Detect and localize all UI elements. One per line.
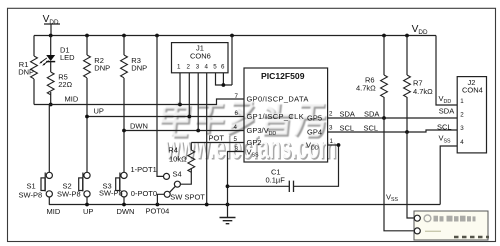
svg-text:UP: UP: [83, 207, 93, 216]
svg-text:SW-P8: SW-P8: [99, 189, 123, 198]
node SCL-R7: [405, 130, 409, 134]
svg-text:POT: POT: [209, 133, 225, 142]
svg-text:1: 1: [177, 63, 181, 70]
node J1p1-MID: [178, 103, 182, 107]
node rail-J1p4: [205, 203, 209, 207]
svg-text:SCL: SCL: [437, 123, 452, 132]
node rail-R3: [122, 34, 126, 38]
svg-text:MID: MID: [65, 94, 79, 103]
svg-text:POT04: POT04: [146, 207, 170, 216]
node pin1-C1: [337, 143, 341, 147]
svg-text:S4: S4: [173, 170, 182, 179]
svg-text:DWN: DWN: [117, 207, 135, 216]
svg-text:SW SPOT: SW SPOT: [170, 193, 205, 202]
resistor R7: [404, 36, 434, 133]
resistor R2: [84, 36, 111, 173]
node rail-S4: [155, 34, 159, 38]
svg-text:GP2: GP2: [247, 138, 262, 147]
resistor R1: [18, 36, 37, 105]
svg-text:1: 1: [460, 98, 464, 105]
svg-text:0-POT0: 0-POT0: [131, 189, 157, 198]
wire ground rail: [49, 204, 440, 206]
header J1 CON6: [172, 43, 229, 73]
wire SCL drop to module: [407, 132, 414, 218]
svg-text:6: 6: [235, 110, 239, 117]
node rail-S2: [85, 203, 89, 207]
capacitor C1: [228, 145, 339, 192]
svg-text:R4: R4: [168, 145, 178, 154]
svg-text:4.7kΩ: 4.7kΩ: [356, 84, 376, 93]
svg-text:SDA: SDA: [340, 110, 355, 119]
node rail-R2: [85, 34, 89, 38]
svg-text:10kΩ: 10kΩ: [169, 154, 187, 163]
header J2 CON4: [457, 77, 486, 153]
svg-text:3: 3: [460, 125, 464, 132]
svg-text:5: 5: [213, 63, 217, 70]
svg-text:DWN: DWN: [130, 121, 148, 130]
wire J1 pin4: [206, 73, 208, 205]
svg-text:SCL: SCL: [340, 123, 355, 132]
node VSS-C1: [226, 184, 230, 188]
node J1p2-UP: [187, 115, 191, 119]
pushbutton S2: [57, 172, 93, 216]
svg-text:2: 2: [187, 63, 191, 70]
LED D1: [39, 36, 75, 73]
svg-text:4: 4: [205, 63, 209, 70]
svg-text:MID: MID: [47, 207, 61, 216]
svg-text:0.1µF: 0.1µF: [266, 176, 286, 185]
watermark hanzi 电子发烧友: [161, 101, 328, 137]
svg-text:1: 1: [330, 138, 334, 145]
svg-text:UP: UP: [94, 106, 104, 115]
node rail-D1: [49, 34, 53, 38]
resistor R4: [168, 143, 194, 173]
svg-text:4.7kΩ: 4.7kΩ: [413, 87, 433, 96]
wire J1 pin1: [179, 73, 181, 105]
node SDA-R6: [382, 116, 386, 120]
wire SDA row: [328, 117, 458, 119]
node rail-gnd: [226, 203, 230, 207]
resistor R5: [47, 72, 72, 105]
svg-text:22Ω: 22Ω: [58, 80, 72, 89]
wire VDD top rail: [34, 35, 436, 37]
pushbutton S3: [99, 172, 134, 216]
wire VDD to J2 pin1: [436, 36, 457, 106]
svg-text:LED: LED: [60, 53, 75, 62]
wire J1 pin2: [188, 73, 190, 117]
VDD supply symbol top-right: [412, 24, 428, 36]
ground: [220, 218, 236, 224]
svg-text:2: 2: [329, 111, 333, 118]
wire SCL row: [328, 130, 458, 132]
svg-text:SW-P8: SW-P8: [19, 191, 43, 200]
svg-text:DNP: DNP: [18, 68, 34, 77]
node rail-R7: [405, 34, 409, 38]
wire UP row: [87, 116, 244, 118]
svg-text:4: 4: [234, 124, 238, 131]
wire DWN row: [124, 130, 244, 132]
resistor R3: [121, 36, 148, 173]
IC U1 PIC12F509: [244, 68, 328, 162]
svg-text:2: 2: [460, 112, 464, 119]
svg-text:SDA: SDA: [364, 110, 379, 119]
VDD supply symbol top-left: [43, 14, 60, 35]
svg-text:5: 5: [234, 136, 238, 143]
svg-text:3: 3: [196, 63, 200, 70]
svg-text:GP5: GP5: [307, 114, 322, 123]
node DWN-R3: [122, 129, 126, 133]
node rail-S4throw: [156, 203, 160, 207]
svg-text:6: 6: [221, 63, 225, 70]
svg-text:GP0/ISCP_DATA: GP0/ISCP_DATA: [247, 95, 309, 104]
wire VDD pin1: [328, 144, 339, 146]
svg-text:7: 7: [235, 93, 239, 100]
svg-text:DNP: DNP: [131, 63, 147, 72]
wire J1 pin5-6 tie to VDD: [216, 36, 233, 86]
svg-text:SCL: SCL: [364, 123, 379, 132]
wire VSS pin to ground: [228, 152, 245, 218]
resistor R6: [356, 36, 387, 119]
svg-text:S1: S1: [27, 182, 36, 191]
svg-text:SDA: SDA: [439, 107, 454, 116]
wire J1 pin3: [197, 73, 199, 131]
node J1p6 tie: [222, 83, 226, 87]
wire VSS to J2 pin4: [440, 146, 457, 205]
node rail-J1: [230, 34, 234, 38]
svg-text:CON6: CON6: [190, 52, 211, 61]
wire MID row: [34, 99, 244, 105]
svg-text:DNP: DNP: [94, 63, 110, 72]
node J1p3-DWN: [196, 129, 200, 133]
watermark www.elecfans.com: [164, 129, 337, 167]
wire SDA drop to module: [384, 118, 414, 231]
svg-text:3: 3: [329, 125, 333, 132]
switch S4 SPDT: [131, 36, 206, 205]
node rail-S3: [122, 203, 126, 207]
svg-text:4: 4: [460, 139, 464, 146]
svg-text:1-POT1: 1-POT1: [131, 165, 157, 174]
svg-text:SW-P8: SW-P8: [57, 190, 81, 199]
wire POT row: [191, 142, 244, 144]
node rail-R6: [382, 34, 386, 38]
svg-text:PIC12F509: PIC12F509: [261, 71, 305, 81]
node UP-R2: [85, 115, 89, 119]
svg-text:GP4: GP4: [307, 128, 322, 137]
node MID-R5: [49, 103, 53, 107]
svg-text:CON4: CON4: [462, 85, 483, 94]
module logo box: [414, 211, 489, 240]
svg-text:GP1/ISCP_CLK: GP1/ISCP_CLK: [247, 112, 305, 121]
pushbutton S1: [19, 105, 61, 216]
